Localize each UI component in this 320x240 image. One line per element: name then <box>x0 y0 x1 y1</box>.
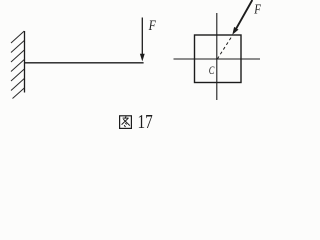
force arrow F (diagonal) shaft <box>235 0 252 30</box>
caption glyph 图 <box>120 116 132 129</box>
fixed wall line <box>24 31 26 93</box>
svg-text:17: 17 <box>138 112 153 133</box>
force arrow F (down) shaft <box>141 18 143 57</box>
force arrow F (down) head <box>140 54 145 62</box>
svg-text:F: F <box>148 18 156 34</box>
svg-text:F: F <box>254 1 262 16</box>
wall hatch 4 <box>11 60 24 72</box>
wall hatch 1 <box>11 31 24 43</box>
wall hatch 6 <box>11 79 24 91</box>
force arrow F (diagonal) head <box>232 27 238 35</box>
dashed action line to center C <box>217 36 232 59</box>
svg-text:C: C <box>209 65 215 77</box>
square plate <box>195 35 242 83</box>
wall hatch 3 <box>11 50 24 62</box>
wall hatch 5 <box>11 69 24 81</box>
wall hatch 7 <box>13 88 25 99</box>
cantilever beam <box>25 62 144 64</box>
horizontal centerline <box>174 58 261 60</box>
wall hatch 2 <box>11 41 24 53</box>
vertical centerline <box>216 13 218 100</box>
